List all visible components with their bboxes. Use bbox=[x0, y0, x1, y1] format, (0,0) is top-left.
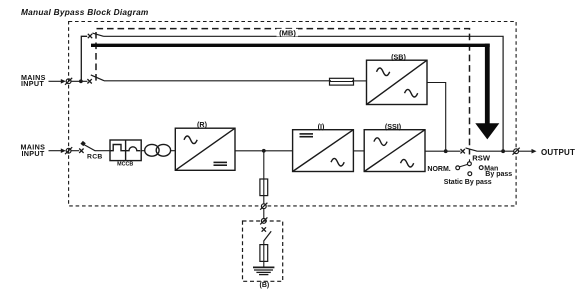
battery symbol bbox=[253, 267, 274, 274]
MCCB moulded-case breaker bbox=[110, 140, 141, 161]
junction node (bypass tap) bbox=[79, 79, 83, 83]
switch blade (MB switch) bbox=[92, 33, 103, 36]
wire bbox=[263, 261, 265, 266]
inverter I bbox=[293, 130, 354, 172]
arrowhead output bbox=[532, 149, 537, 154]
inductor / input choke bbox=[145, 144, 171, 156]
breaker contact X (mains 1) bbox=[87, 79, 91, 83]
breaker contact X (battery) bbox=[262, 227, 266, 231]
(B) battery dashed enclosure bbox=[243, 221, 283, 281]
svg-text:(B): (B) bbox=[260, 282, 270, 289]
RCB switch blade bbox=[84, 145, 95, 151]
output terminal (circle with slash) bbox=[513, 148, 520, 155]
wire: I to SSI bbox=[353, 150, 364, 152]
Static position circle bbox=[468, 172, 472, 176]
rectifier R bbox=[175, 128, 235, 170]
wire: output bus bbox=[425, 150, 461, 152]
svg-text:(MB): (MB) bbox=[279, 29, 296, 38]
(MB) label bbox=[277, 29, 299, 38]
svg-text:INPUT: INPUT bbox=[22, 149, 45, 158]
arrowhead mains 2 bbox=[61, 148, 66, 153]
battery terminal (circle with slash) bbox=[260, 203, 267, 210]
wire: bus to output terminal bbox=[478, 150, 514, 152]
svg-text:RSW: RSW bbox=[472, 154, 491, 163]
fuse F3 (battery string) bbox=[260, 245, 268, 262]
wire: riser from input junction to MB switch bbox=[81, 36, 87, 81]
svg-text:OUTPUT: OUTPUT bbox=[541, 148, 575, 157]
thick bypass power-flow arrow bbox=[91, 44, 490, 47]
RSW pivot circle bbox=[468, 162, 472, 166]
wire: terminal to RCB bbox=[71, 150, 79, 152]
NORM position circle bbox=[456, 166, 460, 170]
wire: to bypass fuse bbox=[104, 80, 331, 82]
battery terminal 2 (circle with slash) bbox=[260, 217, 267, 224]
wire: battery drop bbox=[263, 151, 265, 204]
svg-text:RCB: RCB bbox=[87, 154, 103, 161]
arrowhead mains 1 bbox=[61, 79, 66, 84]
switch blade (mains 1) bbox=[91, 75, 104, 81]
wire: rectifier to inverter (DC bus) bbox=[235, 150, 293, 152]
wire: SB output down to bus bbox=[427, 83, 446, 152]
junction node (MB line) bbox=[501, 149, 505, 153]
wire: manual bypass line to output bus bbox=[104, 36, 504, 151]
wire: mains 2 lead-in bbox=[49, 150, 62, 152]
svg-text:By pass: By pass bbox=[485, 171, 512, 178]
RSW switch blade bbox=[466, 148, 478, 151]
(MB) manual bypass dashed enclosure bbox=[96, 29, 470, 155]
wire: output lead bbox=[519, 150, 532, 152]
svg-text:Manual Bypass Block Diagram: Manual Bypass Block Diagram bbox=[21, 7, 149, 17]
wire: MCCB to inductor bbox=[141, 150, 145, 152]
RCB blade end block bbox=[80, 141, 85, 146]
svg-text:NORM.: NORM. bbox=[427, 166, 450, 173]
wire bbox=[263, 240, 265, 244]
outer dashed enclosure (UPS cabinet) bbox=[69, 22, 516, 206]
fuse F2 (battery) bbox=[260, 179, 268, 196]
Man position circle bbox=[479, 166, 483, 170]
svg-text:MCCB: MCCB bbox=[117, 161, 133, 167]
wire bbox=[263, 209, 265, 219]
wire: fuse to SB bbox=[352, 80, 367, 82]
junction node (SB feed) bbox=[444, 149, 448, 153]
wire: inductor to rectifier bbox=[171, 150, 176, 152]
wire: RCB to MCCB bbox=[95, 150, 110, 152]
RSW breaker contact X bbox=[461, 149, 465, 153]
svg-text:INPUT: INPUT bbox=[21, 79, 44, 88]
static switch SSI bbox=[364, 130, 425, 172]
RCB breaker contact X bbox=[79, 149, 83, 153]
wire: mains 1 lead-in bbox=[49, 80, 62, 82]
fuse F1 (static bypass feed) bbox=[330, 78, 354, 85]
static bypass switch SB bbox=[367, 60, 428, 104]
svg-text:(R): (R) bbox=[197, 120, 208, 129]
input terminal T1 (circle with slash) bbox=[65, 78, 72, 85]
junction node (battery tap) bbox=[262, 149, 266, 153]
input terminal T2 (circle with slash) bbox=[65, 147, 72, 154]
breaker contact X (MB switch) bbox=[88, 34, 92, 38]
RSW pivot stem bbox=[469, 159, 471, 162]
svg-text:Static By pass: Static By pass bbox=[444, 179, 492, 186]
switch blade (battery) bbox=[264, 231, 271, 240]
RSW selector link bbox=[459, 164, 467, 167]
wire: terminal to breaker bbox=[71, 80, 87, 82]
